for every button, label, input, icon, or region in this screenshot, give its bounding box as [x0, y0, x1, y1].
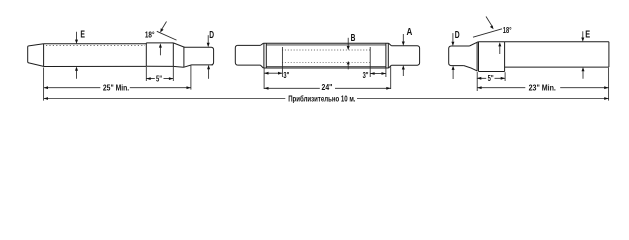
- middle sleeve left band: [264, 43, 266, 68]
- middle sleeve outline: [263, 43, 388, 68]
- witness line right upset end: [504, 72, 506, 81]
- svg-text:3": 3": [283, 70, 289, 80]
- B bottom arrow: [347, 64, 349, 69]
- hardband up-arrow inside left upset: [159, 47, 161, 55]
- svg-text:24": 24": [322, 83, 333, 92]
- 18 degree leader arrow (left): [162, 22, 167, 29]
- witness line left upset end: [172, 67, 174, 81]
- right upset outline: [479, 42, 505, 72]
- hardband up-arrow inside right upset: [499, 46, 501, 54]
- left neck tube edges: [185, 47, 213, 65]
- middle pipe right tube edges: [391, 46, 417, 65]
- left upset end vertical: [172, 43, 174, 66]
- B top arrow: [347, 38, 349, 47]
- svg-text:3": 3": [363, 70, 369, 80]
- A top arrow: [402, 34, 404, 42]
- right 18 degree taper top: [469, 42, 478, 46]
- witness line left neck: [190, 66, 192, 90]
- 18 degree extension line (left): [157, 31, 177, 40]
- E bottom arrow (right): [582, 71, 584, 79]
- witness line middle sleeve left: [263, 67, 265, 89]
- svg-text:5": 5": [488, 74, 494, 83]
- 18 degree leader arrow (right): [486, 17, 493, 28]
- witness line left upset start: [145, 67, 147, 81]
- D top arrow (left): [207, 35, 209, 43]
- middle sleeve inner edges: [266, 45, 386, 67]
- middle pipe right end cap: [418, 46, 420, 65]
- witness line right taper: [476, 72, 478, 91]
- svg-text:D: D: [455, 30, 460, 41]
- E top arrow (right): [582, 31, 584, 38]
- right taper bottom: [464, 66, 477, 71]
- left tool joint upset start vertical: [145, 43, 147, 66]
- D bottom arrow (left): [208, 69, 210, 79]
- overall length dimension line: [44, 98, 609, 100]
- left pipe end cap: [212, 47, 214, 65]
- 3 inch dimension right: [370, 73, 386, 75]
- A bottom arrow: [402, 69, 404, 76]
- middle pipe left tube edges: [237, 45, 260, 65]
- left taper end vertical: [183, 47, 185, 68]
- D top arrow (right): [452, 33, 454, 43]
- left pipe body outline: [44, 44, 147, 67]
- svg-text:5": 5": [156, 74, 162, 83]
- witness line middle coating left: [281, 47, 283, 77]
- 5 inch dimension (right): [477, 77, 505, 79]
- 5 inch dimension (left): [146, 78, 173, 80]
- witness line middle coating right: [369, 47, 371, 77]
- 18 degree extension line (right): [473, 29, 502, 37]
- E top arrow: [76, 32, 78, 41]
- middle pipe left end cap: [235, 45, 237, 65]
- svg-text:D: D: [209, 30, 214, 41]
- svg-text:E: E: [80, 30, 85, 41]
- middle sleeve right band: [386, 43, 388, 68]
- middle sleeve right step: [389, 43, 392, 68]
- middle internal coating dotted lines: [282, 50, 370, 62]
- right pipe end cap (left end): [449, 46, 451, 66]
- D bottom arrow (right): [452, 69, 454, 79]
- witness line middle sleeve right: [385, 67, 387, 77]
- left pipe nose: [28, 44, 44, 67]
- svg-text:25" Min.: 25" Min.: [103, 83, 129, 92]
- left tool joint upset top and bottom edges: [146, 43, 183, 67]
- svg-text:E: E: [585, 30, 590, 41]
- svg-text:B: B: [351, 33, 356, 44]
- right taper end verticals: [477, 42, 478, 71]
- right pipe body outline: [505, 42, 609, 67]
- 3 inch dimension left: [264, 72, 282, 74]
- witness line left shoulder: [43, 68, 45, 101]
- svg-text:18°: 18°: [145, 30, 155, 39]
- svg-text:23" Min.: 23" Min.: [529, 83, 556, 92]
- 25 inch Min dimension: [44, 87, 191, 89]
- svg-text:18°: 18°: [503, 26, 512, 35]
- right neck tube edges: [451, 46, 469, 66]
- E bottom arrow (left): [76, 70, 78, 79]
- left taper bottom: [184, 65, 192, 67]
- svg-text:Приблизительно 10 м.: Приблизительно 10 м.: [288, 94, 355, 103]
- 23 inch Min dimension: [477, 87, 608, 89]
- left 18 degree taper top: [173, 43, 184, 47]
- witness line right pipe end: [608, 68, 610, 101]
- 24 inch dimension: [264, 87, 391, 89]
- middle sleeve left step: [260, 43, 263, 68]
- witness line 24 inch right: [390, 66, 392, 89]
- left pipe internal coating dotted line: [46, 45, 145, 47]
- svg-text:A: A: [407, 27, 413, 38]
